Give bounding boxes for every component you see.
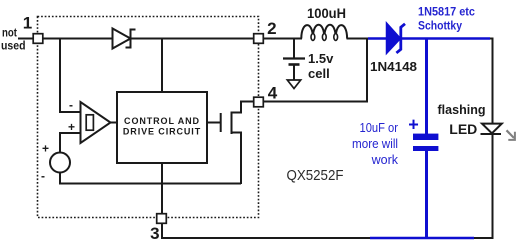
- wire junction down to op-amp inverting input: [60, 39, 80, 113]
- diode D2 1N4148/Schottky blue: [387, 23, 401, 54]
- battery B1 1.5v cell plates: [283, 57, 305, 59]
- wire box bottom to pin 3: [161, 163, 163, 214]
- wire inductor to node: [347, 38, 370, 40]
- diode D1 (internal, not used): [113, 29, 131, 49]
- LED D3 flashing: [482, 124, 502, 134]
- wire top to control box: [161, 39, 163, 93]
- svg-text:-: -: [69, 98, 73, 112]
- svg-text:3: 3: [150, 224, 159, 243]
- mosfet drain wire to pin 4: [232, 102, 255, 113]
- hysteresis glyph: [86, 115, 93, 130]
- capacitor plates: [413, 134, 438, 140]
- wire pin1 left stub: [18, 38, 33, 40]
- svg-text:-: -: [41, 169, 45, 183]
- svg-text:+: +: [408, 114, 419, 134]
- mosfet channel bar: [231, 112, 233, 135]
- svg-text:work: work: [371, 153, 399, 167]
- svg-text:1.5v: 1.5v: [308, 51, 334, 66]
- IC dotted boundary QX5252F: [38, 17, 259, 218]
- svg-text:CONTROL AND: CONTROL AND: [124, 116, 200, 126]
- svg-text:4: 4: [268, 84, 278, 103]
- svg-text:+: +: [68, 120, 75, 134]
- svg-text:not: not: [2, 27, 17, 39]
- capacitor C1 branch top blue: [425, 39, 428, 135]
- pin 3 pad: [157, 214, 167, 224]
- op-amp U1 comparator: [81, 102, 111, 143]
- wire right vertical to LED: [490, 39, 493, 125]
- wire pin1 to diode D1: [43, 38, 113, 40]
- source V1 circle: [50, 153, 70, 173]
- svg-text:flashing: flashing: [438, 103, 486, 117]
- wire bottom rail black: [161, 237, 370, 239]
- svg-text:+: +: [42, 142, 49, 156]
- wire top node to diode blue: [368, 37, 387, 39]
- svg-text:1N4148: 1N4148: [370, 59, 417, 74]
- svg-text:1N5817 etc: 1N5817 etc: [418, 5, 475, 19]
- inductor L1 100uH: [301, 25, 347, 39]
- capacitor branch bottom blue: [425, 151, 428, 240]
- mosfet gate bar: [220, 113, 222, 132]
- wire node down to pin4 rail: [366, 39, 368, 102]
- pin 1 pad: [33, 34, 43, 44]
- svg-text:2: 2: [267, 19, 276, 38]
- wire diode to right corner blue: [402, 37, 490, 39]
- wire bottom rail blue: [370, 237, 474, 239]
- svg-text:LED: LED: [449, 121, 477, 137]
- mosfet source wire to bottom rail: [232, 133, 242, 185]
- wire diode D1 to pin 2: [131, 38, 254, 40]
- svg-text:cell: cell: [308, 66, 330, 81]
- LED emission arrow: [507, 130, 515, 138]
- pin 4 pad: [254, 97, 264, 107]
- battery bottom wire: [293, 65, 295, 80]
- wire source bottom rail: [60, 173, 241, 184]
- svg-text:100uH: 100uH: [307, 6, 346, 21]
- wire op-amp output: [111, 122, 118, 124]
- svg-text:QX5252F: QX5252F: [287, 167, 344, 184]
- svg-text:1: 1: [23, 14, 32, 33]
- battery top wire: [293, 39, 295, 59]
- transistor Q1 mosfet gate wire: [207, 122, 220, 124]
- svg-text:DRIVE CIRCUIT: DRIVE CIRCUIT: [123, 127, 201, 137]
- svg-text:more will: more will: [352, 137, 398, 151]
- wire bottom right corner black: [474, 134, 493, 238]
- wire pin 2 to inductor: [263, 38, 302, 40]
- control box U2: [117, 92, 207, 163]
- wire pin 3 down: [161, 223, 163, 239]
- svg-text:Schottky: Schottky: [418, 19, 462, 33]
- ground symbol: [287, 80, 300, 89]
- wire pin 4 right rail: [263, 101, 368, 103]
- wire op-amp non-inverting input from source: [60, 133, 80, 153]
- svg-text:used: used: [1, 41, 26, 53]
- pin 2 pad: [254, 34, 264, 44]
- svg-text:10uF or: 10uF or: [360, 121, 399, 135]
